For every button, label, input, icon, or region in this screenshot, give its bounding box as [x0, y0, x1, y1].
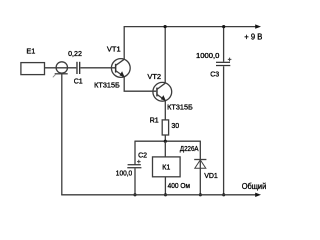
svg-text:Общий: Общий — [242, 182, 267, 191]
svg-text:30: 30 — [171, 123, 179, 130]
svg-text:C1: C1 — [74, 79, 83, 86]
transistor VT1 — [111, 59, 130, 78]
svg-text:КТ315Б: КТ315Б — [167, 104, 193, 111]
svg-text:0,22: 0,22 — [68, 51, 82, 58]
wire VT2 collector to +rail — [164, 27, 166, 84]
svg-text:R1: R1 — [150, 117, 159, 124]
diode VD1 — [194, 160, 206, 169]
capacitor C3 — [216, 62, 230, 66]
C2 plus sign — [137, 160, 141, 164]
svg-text:VT1: VT1 — [107, 45, 121, 54]
resistor R1 — [162, 120, 168, 135]
C3 plus sign — [228, 58, 232, 62]
junction VT2 collector / rail — [164, 25, 167, 28]
wire VT1 collector to +rail — [123, 27, 125, 60]
svg-text:+ 9 В: + 9 В — [244, 32, 262, 41]
wire rail to C3 — [223, 27, 225, 62]
svg-text:C3: C3 — [210, 72, 219, 79]
svg-text:100,0: 100,0 — [116, 171, 132, 178]
junction VD1 ground — [199, 193, 202, 196]
svg-text:1000,0: 1000,0 — [196, 53, 220, 60]
junction R1 node — [164, 140, 167, 143]
junction C3 rail — [222, 25, 225, 28]
+9V rail — [124, 26, 257, 28]
ground arrow — [255, 193, 261, 197]
wire node to VD1 — [199, 141, 201, 195]
svg-text:VT2: VT2 — [147, 72, 161, 81]
junction C2 ground — [133, 193, 136, 196]
wire E1 to input node — [45, 67, 77, 69]
relay K1 — [153, 157, 181, 177]
transistor VT2 — [153, 82, 172, 101]
terminal bottom bar — [55, 73, 68, 75]
wire input node down — [61, 74, 63, 195]
wire VT1 emitter to VT2 base — [124, 77, 156, 92]
svg-text:E1: E1 — [26, 46, 35, 55]
sensor E1 — [21, 63, 45, 75]
junction C3 ground — [222, 193, 225, 196]
svg-text:400 Ом: 400 Ом — [168, 183, 191, 190]
wire VT2 emitter to R1 — [164, 100, 166, 120]
input terminal circle — [56, 62, 67, 73]
wire C1 to VT1 base — [80, 67, 115, 69]
svg-text:Д226А: Д226А — [180, 146, 199, 153]
svg-text:КТ315Б: КТ315Б — [94, 82, 120, 89]
terminal tick — [53, 74, 56, 77]
wire K1 to ground rail — [164, 177, 166, 195]
wire node to C2 — [134, 141, 136, 165]
node wire horizontal — [135, 140, 200, 142]
ground rail — [61, 194, 256, 196]
junction K1 ground — [164, 193, 167, 196]
svg-text:К1: К1 — [162, 165, 170, 172]
+9V arrow — [255, 24, 261, 28]
wire node to relay K1 — [164, 141, 166, 157]
svg-text:C2: C2 — [138, 153, 147, 160]
capacitor C1 — [76, 62, 80, 74]
wire C3 to ground rail — [223, 66, 225, 195]
wire R1 to node — [164, 135, 166, 141]
wire C2 to ground rail — [134, 168, 136, 195]
svg-text:VD1: VD1 — [204, 173, 218, 180]
capacitor C2 — [127, 164, 141, 168]
